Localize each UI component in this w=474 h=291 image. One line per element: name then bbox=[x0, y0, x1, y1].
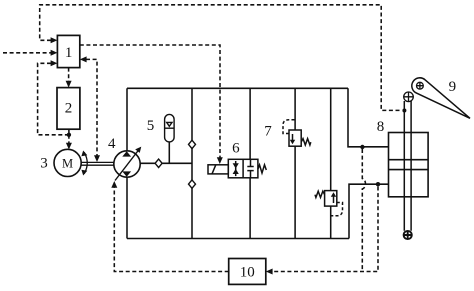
pump variable displacement diagonal arrow bbox=[115, 150, 139, 181]
lower relief valve pilot line bbox=[331, 203, 343, 216]
wire: main circuit top bus bbox=[127, 87, 348, 89]
wire: left edge above pump bbox=[126, 88, 128, 151]
wire: dashed control from box 1 to valve 6 solenoid bbox=[80, 45, 220, 158]
node: junction dot below box 2 bbox=[67, 133, 71, 137]
wire: left edge below pump bbox=[126, 177, 128, 238]
node: junction dot at cylinder top port bbox=[360, 145, 364, 149]
arrowhead: speed tap onto shaft bbox=[94, 155, 100, 162]
svg-text:3: 3 bbox=[40, 156, 48, 172]
accumulator 5 capsule bbox=[165, 114, 175, 142]
rotation double-arrow arc on shaft bbox=[84, 152, 87, 173]
svg-text:1: 1 bbox=[65, 45, 73, 61]
box 1 (controller) bbox=[57, 35, 79, 67]
wire: main circuit bottom bus bbox=[127, 238, 349, 240]
rod lower eye bbox=[404, 231, 412, 239]
lever 9 pivot crosshair bbox=[417, 82, 424, 89]
wire: dashed link junction to motor M bbox=[68, 135, 70, 144]
arrowhead: into box 10 bbox=[266, 269, 273, 275]
svg-text:9: 9 bbox=[449, 79, 457, 95]
wire: vertical branch through valve 6 bbox=[249, 88, 251, 238]
wire: accumulator stem bbox=[168, 142, 170, 163]
relief valve 7 pilot line bbox=[283, 120, 295, 134]
valve 6 body bbox=[228, 159, 258, 178]
svg-text:10: 10 bbox=[240, 265, 255, 281]
motor M circle bbox=[54, 149, 81, 176]
wire: dashed pressure feedback from cylinder bottom port node down to bus bbox=[270, 187, 378, 272]
pump U4 circle (variable displacement) bbox=[114, 151, 140, 177]
accumulator midline bbox=[165, 127, 175, 129]
wire: dashed speed feedback from shaft to box 1 right input bbox=[86, 59, 97, 156]
relief valve 7 (lower) bbox=[325, 191, 337, 207]
wire: vertical branch through lower relief valve bbox=[330, 88, 332, 238]
wire: right edge to cylinder top port bbox=[348, 88, 389, 147]
node: junction dot at cylinder bottom port bbox=[376, 182, 380, 186]
wire: pump outlet line bbox=[140, 162, 192, 164]
wire: dashed setpoint input to box 1 bbox=[3, 52, 51, 54]
arrowhead: into box1 right input bbox=[80, 56, 87, 62]
relief valve 7 spring bbox=[301, 139, 311, 145]
wire: vertical branch through relief valve 7 bbox=[294, 88, 296, 238]
valve 6 right cell blocked ports bbox=[247, 159, 253, 178]
piston rod (double line) bbox=[404, 101, 411, 231]
arrowhead: into box1 top input bbox=[51, 37, 58, 43]
cylinder 8 bbox=[389, 101, 429, 231]
arrowhead: box2 to motor bbox=[66, 143, 72, 150]
box 10 (controller) bbox=[229, 259, 266, 285]
arrowhead: rotation arc top bbox=[81, 151, 87, 157]
svg-text:5: 5 bbox=[147, 118, 155, 134]
test point diamond on pump outlet line bbox=[155, 159, 162, 167]
arrowhead: box10 to pump bbox=[111, 181, 117, 188]
svg-text:4: 4 bbox=[108, 136, 116, 152]
arrowhead: box1 to box2 bbox=[66, 81, 72, 88]
wire: dashed link box 1 to box 2 bbox=[68, 68, 70, 82]
test point diamond on vertical branch (upper) bbox=[189, 140, 196, 148]
pump flow triangle bottom bbox=[122, 171, 131, 176]
node: junction dot on rod bbox=[402, 109, 406, 113]
box 2 (amplifier) bbox=[57, 88, 80, 130]
pump flow triangle top bbox=[122, 151, 131, 156]
wire: dashed pressure feedback from cylinder top port node down to box 10 bus (with hop) bbox=[362, 149, 365, 272]
wire: bottom right riser to cylinder bottom port bbox=[349, 184, 389, 238]
wire: vertical branch with test points bbox=[191, 88, 193, 238]
wire: dashed position feedback loop (rod to box 1 top input) bbox=[40, 5, 402, 111]
accumulator gas triangle bbox=[167, 122, 172, 126]
svg-text:M: M bbox=[62, 157, 73, 171]
wire: dashed feedback loop from node below box 2 to box 1 bottom input bbox=[38, 63, 69, 135]
lever 9 (teardrop link) bbox=[412, 78, 470, 118]
lower relief valve spring bbox=[315, 191, 325, 197]
test point diamond on vertical branch (lower) bbox=[189, 180, 196, 188]
piston bbox=[389, 160, 429, 170]
relief valve 7 (upper) bbox=[289, 130, 301, 146]
wire: link box 2 to junction dot bbox=[68, 129, 70, 135]
valve 6 proportional solenoid box bbox=[208, 165, 228, 174]
svg-text:2: 2 bbox=[65, 100, 73, 116]
svg-text:7: 7 bbox=[264, 124, 272, 140]
arrowhead: rotation arc bottom bbox=[81, 170, 87, 176]
svg-text:6: 6 bbox=[232, 141, 240, 157]
valve 6 left cell flow symbol bbox=[235, 161, 237, 176]
arrowhead: into box1 middle input bbox=[51, 50, 58, 56]
arrowhead: into box1 bottom input bbox=[51, 60, 58, 66]
rod joint crosshair bbox=[404, 92, 414, 102]
shaft (double line) bbox=[81, 162, 114, 165]
svg-text:8: 8 bbox=[377, 119, 385, 135]
arrowhead: control onto valve 6 bbox=[217, 157, 223, 164]
wire: dashed control from box 10 to pump displacement bbox=[114, 187, 228, 272]
valve 6 spring bbox=[258, 165, 266, 173]
